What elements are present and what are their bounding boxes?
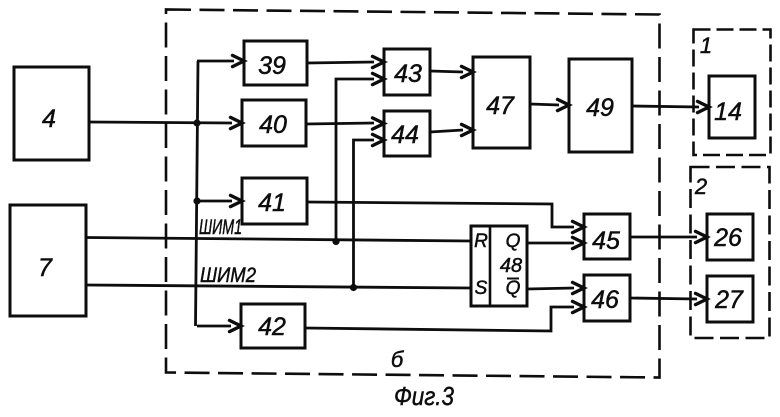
- block 4: [14, 67, 89, 160]
- wire 45 to 26: [630, 236, 697, 239]
- block 40: [242, 100, 306, 146]
- block 42: [241, 304, 305, 348]
- block 26: [707, 214, 753, 260]
- wire SHIM2 branch to 44: [354, 140, 375, 287]
- svg-text:40: 40: [259, 111, 287, 139]
- block 48 RS flip-flop: [471, 226, 527, 306]
- junction node trunk at 41: [193, 197, 200, 204]
- arrowhead into 47 bottom: [462, 124, 474, 135]
- svg-text:44: 44: [391, 121, 419, 149]
- arrowhead into 43 top: [373, 56, 385, 67]
- svg-text:48: 48: [500, 255, 522, 277]
- arrowhead into 45 bottom: [573, 237, 585, 248]
- svg-text:42: 42: [258, 313, 286, 341]
- svg-text:R: R: [474, 231, 488, 252]
- wire trunk to 39: [197, 60, 234, 63]
- wire trunk to 41: [197, 200, 232, 203]
- block 45: [584, 214, 630, 259]
- svg-text:S: S: [475, 278, 488, 299]
- arrowhead into 42: [230, 320, 242, 331]
- svg-text:47: 47: [486, 92, 515, 120]
- svg-text:45: 45: [592, 227, 620, 255]
- wire 47 to 49: [530, 104, 559, 105]
- arrowhead into 46 top: [573, 282, 585, 293]
- junction node on SHIM1: [332, 238, 339, 245]
- wire 46 to 27: [630, 298, 697, 299]
- wire SHIM1 branch to 43: [336, 79, 374, 242]
- svg-text:ШИМ2: ШИМ2: [200, 264, 256, 287]
- wire 49 to 14: [632, 106, 699, 107]
- block 47: [473, 57, 530, 148]
- svg-text:Фиг.3: Фиг.3: [394, 381, 454, 411]
- arrowhead into 39: [233, 55, 245, 66]
- svg-text:46: 46: [591, 286, 619, 314]
- svg-text:1: 1: [700, 33, 712, 58]
- block 39: [244, 41, 307, 85]
- svg-text:14: 14: [714, 98, 742, 126]
- block 14: [709, 76, 755, 138]
- svg-text:б: б: [391, 347, 405, 372]
- wire trunk vertical node A: [196, 61, 199, 326]
- arrowhead into 27: [696, 293, 708, 304]
- svg-text:Q: Q: [506, 278, 521, 299]
- wire 40 to 44: [306, 123, 374, 124]
- block 41: [242, 178, 307, 224]
- arrowhead into 44 top: [373, 118, 385, 129]
- block 27: [707, 276, 753, 322]
- block 7: [10, 205, 86, 316]
- arrowhead into 46 bottom: [573, 301, 585, 312]
- svg-text:ШИМ1: ШИМ1: [199, 216, 242, 239]
- arrowhead into 45 top: [573, 221, 585, 232]
- arrowhead into 44 bottom: [373, 134, 385, 145]
- svg-text:Q: Q: [506, 231, 521, 252]
- wire 4 to 40: [89, 122, 232, 123]
- wire Qbar to 46: [527, 288, 574, 289]
- svg-text:43: 43: [394, 60, 422, 88]
- arrowhead into 43 bottom: [373, 73, 385, 84]
- svg-text:26: 26: [713, 224, 742, 252]
- wire 44 to 47: [430, 130, 463, 132]
- dashed box 6 outline: [166, 10, 660, 378]
- block 43: [384, 49, 430, 95]
- arrowhead into 14: [698, 101, 710, 112]
- wire SHIM1 from 7 to R: [86, 238, 471, 242]
- wire Q to 45: [527, 242, 574, 245]
- wire 43 to 47: [430, 71, 463, 72]
- dashed box 2 outline: [691, 167, 770, 338]
- svg-text:39: 39: [258, 52, 286, 80]
- block 44: [384, 111, 430, 156]
- arrowhead into 41: [231, 195, 243, 206]
- arrowhead into 47 top: [462, 66, 474, 77]
- label Qbar overline: [507, 278, 519, 280]
- wire SHIM2 from 7 to S: [86, 285, 471, 288]
- svg-text:4: 4: [42, 105, 56, 133]
- svg-text:41: 41: [258, 189, 286, 217]
- dashed box 1 outline: [694, 30, 771, 156]
- wire 42 to 46: [305, 307, 574, 331]
- block 46: [584, 275, 630, 321]
- svg-text:7: 7: [38, 254, 53, 282]
- arrowhead into 26: [696, 231, 708, 242]
- arrowhead into 40: [231, 117, 243, 128]
- svg-text:27: 27: [714, 286, 744, 314]
- svg-text:2: 2: [694, 174, 707, 199]
- wire trunk to 42: [197, 325, 231, 328]
- block 49: [569, 59, 632, 152]
- wire 41 to 45: [307, 202, 574, 227]
- svg-text:49: 49: [586, 94, 614, 122]
- block 48 divider: [489, 226, 492, 306]
- junction node on wire 4-40: [193, 119, 200, 126]
- wire 39 to 43: [307, 62, 374, 63]
- arrowhead into 49: [558, 99, 570, 110]
- junction node on SHIM2: [350, 284, 357, 291]
